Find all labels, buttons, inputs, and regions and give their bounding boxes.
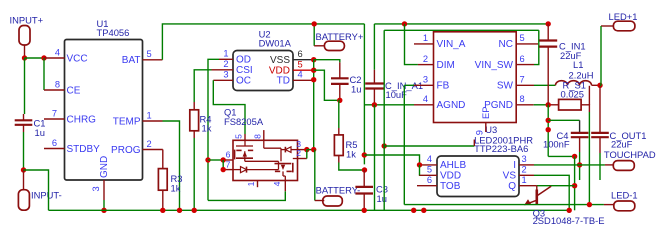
pin U3.1 VIN_A (414, 43, 434, 45)
pin U2.4 TD (293, 79, 314, 81)
wire Q to node (537, 185, 575, 187)
node junction Q1 pin3 a (304, 147, 309, 152)
svg-text:INPUT-: INPUT- (31, 190, 62, 201)
svg-text:4: 4 (427, 154, 432, 164)
pin TTP.1 Q (519, 185, 537, 187)
transistor Q1 FS8205A body (233, 140, 298, 180)
connector INPUT- lead (23, 170, 25, 190)
svg-text:BAT: BAT (122, 55, 141, 66)
pin U2.2 CSI (212, 69, 234, 71)
wire OD to Q1 pin6 (208, 159, 223, 161)
node junction GND bus (101, 208, 106, 213)
svg-text:1: 1 (147, 110, 152, 120)
pin TTP.5 VDD (419, 174, 437, 176)
pin U1.7 CHRG (44, 118, 65, 120)
pin U1.2 PROG (143, 149, 163, 151)
svg-text:3: 3 (223, 70, 228, 80)
svg-text:3: 3 (522, 154, 527, 164)
chip TTP223 body (437, 156, 519, 197)
svg-text:OD: OD (236, 55, 251, 66)
node junction VSS pin (311, 57, 316, 62)
pin U1.4 VCC (44, 57, 65, 59)
wire Q1 pin6 to pin7 link (222, 160, 224, 170)
wire CE branch (43, 58, 45, 90)
wire TEMP to bus (163, 121, 180, 210)
pin TTP.6 TOB (417, 185, 437, 187)
resistor R3 body (158, 169, 167, 191)
svg-text:SW: SW (497, 81, 514, 92)
node junction PGND chain lower (546, 127, 551, 132)
svg-text:6: 6 (226, 149, 231, 159)
wire R_S1 to LED-1 (588, 112, 590, 205)
svg-text:I: I (513, 160, 516, 171)
svg-text:STDBY: STDBY (67, 144, 101, 155)
transistor Q1 internal source rail (245, 160, 279, 162)
svg-text:1k: 1k (202, 123, 212, 134)
svg-text:4: 4 (423, 94, 428, 104)
wire BAT bus to BATTERY+ drop (313, 24, 315, 46)
svg-text:3: 3 (91, 186, 101, 191)
wire C4 branch (548, 119, 579, 121)
pin U3.6 VIN_SW (516, 64, 534, 66)
connector LED-1 (614, 201, 635, 211)
node junction Q1 pin6 (221, 157, 226, 162)
transistor Q3 emitter (526, 200, 538, 205)
capacitor C4 plates (571, 132, 589, 134)
svg-text:7: 7 (226, 159, 231, 169)
pin U1.8 CE (44, 89, 65, 91)
svg-text:2SD1048-7-TB-E: 2SD1048-7-TB-E (533, 215, 605, 226)
node junction Q net (572, 183, 577, 188)
node junction rail2 start (362, 152, 367, 157)
connector BATTERY- lead (315, 200, 325, 202)
wire AHLB to VDD link (419, 165, 421, 175)
svg-text:VIN_A: VIN_A (437, 39, 466, 50)
wire rail1 (384, 145, 474, 147)
wire VSS vertical to Q1 pin3 (313, 60, 315, 150)
connector BATTERY+ (324, 41, 344, 50)
wire CSI to R4 (194, 70, 211, 102)
svg-text:FS8205A: FS8205A (224, 116, 264, 127)
wire OD net left and down (208, 59, 219, 200)
wire row A emitter/LED- net (404, 204, 604, 206)
connector INPUT+ (19, 26, 30, 46)
pin U1.3 GND (103, 180, 105, 200)
wire R4 to bus (193, 138, 195, 210)
node junction TEMP bus (177, 208, 182, 213)
node junction R5/C3/AHLB (362, 167, 367, 172)
node junction LED-1 (587, 202, 592, 207)
pin TTP.2 VS (519, 174, 534, 176)
svg-text:6: 6 (520, 54, 525, 64)
svg-text:7: 7 (520, 75, 525, 85)
pin Q1.1 bottom (257, 181, 259, 188)
svg-text:1: 1 (223, 49, 228, 59)
svg-text:CHRG: CHRG (67, 114, 97, 125)
svg-text:100nF: 100nF (543, 138, 570, 149)
node junction touchpad row (577, 162, 582, 167)
wire vertical C_IN_A1 to bus (374, 105, 376, 211)
wire FB net down (403, 85, 405, 204)
wire R5 to C3 node (339, 163, 365, 171)
wire OD net bottom run to Q1 pin4 (208, 191, 285, 200)
transistor Q3 collector (538, 186, 551, 195)
svg-text:8: 8 (55, 79, 60, 89)
svg-text:BATTERY+: BATTERY+ (316, 31, 364, 42)
svg-text:22uF: 22uF (560, 50, 582, 61)
svg-text:1u: 1u (377, 193, 387, 204)
wire ground net to bus (24, 170, 49, 210)
node junction C_IN_A1 bottom (372, 102, 377, 107)
transistor Q3 base bar (535, 190, 538, 206)
resistor R4 leads (193, 102, 195, 110)
connector INPUT- (18, 190, 29, 211)
pin U3.8 PGND (516, 104, 534, 106)
pin Q1.6 left (223, 159, 233, 161)
wire bottom ground bus (49, 209, 570, 211)
pin U3.7 SW (516, 84, 534, 86)
resistor R4 body (190, 110, 199, 131)
node junction OD/Q1 gate1 (205, 157, 210, 162)
pin U2.5 VDD (293, 69, 314, 71)
connector BATTERY- (323, 196, 343, 206)
svg-text:U3: U3 (485, 124, 497, 135)
pin U2.1 OD (219, 58, 233, 60)
svg-text:AHLB: AHLB (440, 160, 466, 171)
svg-text:CSI: CSI (236, 65, 253, 76)
node junction Q1 pin3 b (311, 147, 316, 152)
svg-text:1: 1 (522, 175, 527, 185)
wire VDD to C2 bottom (314, 70, 340, 100)
pin U3.3 FB (414, 84, 434, 86)
wire SW to L1 (534, 84, 556, 86)
svg-text:1u: 1u (351, 84, 361, 95)
svg-text:GND: GND (99, 156, 110, 178)
node junction PGND (546, 102, 551, 107)
connector TOUCHPAD (613, 161, 634, 171)
svg-text:PROG: PROG (111, 145, 141, 156)
wire C4 bottom to touch row (579, 152, 581, 180)
capacitor C_IN1 leads and plates (547, 24, 549, 41)
svg-text:9: 9 (475, 130, 485, 135)
pin U2.6 VSS (293, 59, 314, 61)
transistor Q1 internal mosfet B (275, 163, 292, 165)
node junction Q1 pin7 (221, 167, 226, 172)
svg-text:CE: CE (67, 85, 81, 96)
pin U1.5 BAT (143, 59, 163, 61)
resistor R_S1 right lead (581, 105, 589, 112)
svg-text:AGND: AGND (437, 100, 466, 111)
node junction bus b (421, 208, 426, 213)
svg-text:5: 5 (298, 60, 303, 70)
wire C1 bottom to node (23, 132, 25, 170)
wire BATTERY- drop (314, 150, 316, 201)
node junction C2 bottom / R5 (337, 98, 342, 103)
node junction bus a (411, 208, 416, 213)
svg-text:2: 2 (423, 54, 428, 64)
svg-text:VCC: VCC (67, 53, 88, 64)
svg-text:VS: VS (503, 171, 517, 182)
pin Q1.2 right (298, 158, 307, 160)
chip U3 LED2001PHR body (434, 32, 517, 123)
svg-text:TOUCHPAD: TOUCHPAD (604, 149, 656, 160)
pin U1.6 STDBY (44, 148, 65, 150)
node junction BATTERY+ bus (312, 21, 317, 26)
svg-text:22uF: 22uF (611, 138, 633, 149)
capacitor C4 bottom lead (579, 137, 581, 152)
wire VS to bus (534, 175, 569, 210)
svg-text:8: 8 (520, 94, 525, 104)
svg-text:1u: 1u (35, 127, 45, 138)
wire vertical rail1 to bus (383, 30, 385, 210)
capacitor C4 top lead (579, 120, 581, 133)
svg-text:6: 6 (298, 49, 303, 59)
svg-text:4: 4 (55, 47, 60, 57)
svg-text:6: 6 (52, 138, 57, 148)
pin U3.2 DIM (418, 64, 434, 66)
node junction LED+ / L1 / C_OUT1 (597, 83, 602, 88)
pin U1.1 TEMP (143, 120, 163, 122)
pin U2.3 OC (213, 79, 233, 81)
node junction R4 bus (192, 208, 197, 213)
svg-text:NC: NC (499, 39, 513, 50)
svg-text:2: 2 (147, 139, 152, 149)
pin Q1.5 top (244, 134, 246, 140)
svg-text:FB: FB (437, 81, 450, 92)
connector BATTERY+ lead (314, 45, 324, 47)
capacitor C_OUT1 bottom lead (599, 137, 601, 153)
connector LED-1 lead (604, 204, 614, 206)
chip U2 DW01A body (233, 51, 293, 91)
svg-text:1k: 1k (171, 183, 181, 194)
connector LED+1 lead (601, 25, 613, 27)
svg-text:2: 2 (522, 165, 527, 175)
svg-text:OC: OC (236, 76, 251, 87)
wire BAT to top bus (162, 24, 364, 60)
chip U1 TP4056 body (65, 40, 143, 181)
wire OC to Q1 pin5 (213, 80, 245, 134)
node junction VCC/CE branch (41, 55, 46, 60)
svg-text:6: 6 (427, 175, 432, 185)
node junction rail1 start (382, 143, 387, 148)
svg-text:5: 5 (147, 49, 152, 59)
svg-text:5: 5 (234, 134, 244, 139)
pin TTP.3 I (519, 164, 534, 166)
svg-text:0.025: 0.025 (561, 88, 584, 99)
svg-text:VSS: VSS (270, 55, 290, 66)
wire Q1 pin3 to pin2 link (306, 150, 308, 159)
svg-text:INPUT+: INPUT+ (10, 15, 44, 26)
svg-text:2: 2 (223, 59, 228, 69)
node junction C_IN1 top bus (546, 21, 551, 26)
svg-text:BATTERY-: BATTERY- (316, 185, 361, 196)
node junction C4 branch (546, 118, 551, 123)
wire AGND rail (364, 104, 414, 106)
resistor R_S1 body (559, 99, 582, 110)
svg-text:VIN_SW: VIN_SW (475, 60, 514, 71)
node junction C3 bus (362, 208, 367, 213)
svg-text:TD: TD (277, 76, 290, 87)
wire I pin to touchpad row (534, 164, 605, 166)
wire PGND rail to Q drop (548, 155, 574, 157)
resistor R5 body (334, 135, 343, 156)
wire DIM drop (405, 24, 418, 65)
svg-text:1: 1 (246, 181, 256, 186)
wire FB net stub (404, 84, 418, 86)
pin U3.4 AGND (414, 104, 434, 106)
wire LED+1 drop to L1 node (600, 26, 602, 85)
svg-text:LED+1: LED+1 (609, 11, 638, 22)
resistor R5 top lead (339, 99, 340, 101)
node junction Q drop top (572, 154, 577, 159)
wire Q1 pin3 to VSS net (307, 149, 314, 151)
wire VSS to C2 top (314, 60, 340, 63)
node junction VDD pin (311, 68, 316, 73)
transistor Q3 base lead (536, 186, 538, 190)
svg-text:1: 1 (423, 33, 428, 43)
pin Q1.7 left (223, 169, 233, 171)
resistor R_S1 left lead (548, 104, 558, 106)
inductor L1 (556, 81, 592, 86)
svg-text:4: 4 (298, 70, 303, 80)
wire VCC net (25, 57, 45, 59)
svg-text:8: 8 (252, 134, 262, 139)
svg-text:Q: Q (508, 181, 516, 192)
wire rail2 to AHLB (364, 155, 419, 165)
svg-text:DW01A: DW01A (259, 37, 292, 48)
pin TTP.4 AHLB (420, 164, 438, 166)
svg-text:5: 5 (520, 33, 525, 43)
svg-text:TEMP: TEMP (113, 116, 141, 127)
wire GND pin to bus (103, 200, 105, 210)
svg-text:VDD: VDD (440, 171, 461, 182)
pin stub at rail1 end (473, 140, 475, 147)
node junction VS bus (567, 208, 572, 213)
pin U3.5 NC (516, 43, 538, 45)
node junction INPUT-/C1 (21, 167, 26, 172)
capacitor C1 leads and plates (24, 58, 26, 114)
transistor Q1 internal mosfet A (244, 140, 246, 146)
node junction DIM bus (402, 21, 407, 26)
transistor Q1 internal body diode B (291, 149, 298, 151)
capacitor C_OUT1 top lead (599, 85, 601, 133)
svg-text:DIM: DIM (437, 60, 455, 71)
wire VIN_SW rail (384, 29, 539, 31)
resistor R3 leads (162, 150, 164, 169)
svg-text:LED-1: LED-1 (611, 190, 638, 201)
connector LED+1 (613, 21, 635, 31)
svg-text:7: 7 (52, 108, 57, 118)
wire PGND to node (534, 104, 549, 106)
pin Q1.4 bottom (284, 181, 286, 192)
wire VIN bus drop at left (363, 24, 365, 165)
node junction TD pin (311, 77, 316, 82)
capacitor C_IN_A1 leads and plates (373, 24, 375, 70)
wire Q drop vertical (574, 156, 576, 210)
svg-text:TOB: TOB (440, 181, 461, 192)
svg-text:4: 4 (272, 181, 282, 186)
capacitor C2 leads and plates (339, 62, 341, 78)
wire VIN_SW up-over rail (534, 30, 539, 64)
capacitor C_OUT1 plates (591, 132, 609, 134)
wire VIN bus right segment (374, 23, 548, 25)
svg-text:TP4056: TP4056 (97, 27, 130, 38)
pin Q1.8 top (263, 130, 265, 140)
capacitor C3 leads and plates (363, 170, 365, 187)
node junction AHLB (417, 162, 422, 167)
pin U3.9 EP (485, 123, 487, 133)
svg-text:TTP223-BA6: TTP223-BA6 (474, 143, 528, 154)
connector TOUCHPAD lead (605, 164, 613, 166)
resistor R5 bottom lead (338, 156, 340, 163)
pin Q1.3 right (298, 149, 307, 151)
wire PGND chain vertical (547, 105, 549, 157)
svg-text:5: 5 (427, 165, 432, 175)
svg-text:EP: EP (481, 107, 491, 119)
node junction VCC/INPUT+ (22, 55, 27, 60)
transistor Q1 internal body diode A (233, 169, 241, 171)
svg-text:3: 3 (423, 75, 428, 85)
node junction R3 bus (160, 208, 165, 213)
svg-text:1k: 1k (346, 149, 356, 160)
